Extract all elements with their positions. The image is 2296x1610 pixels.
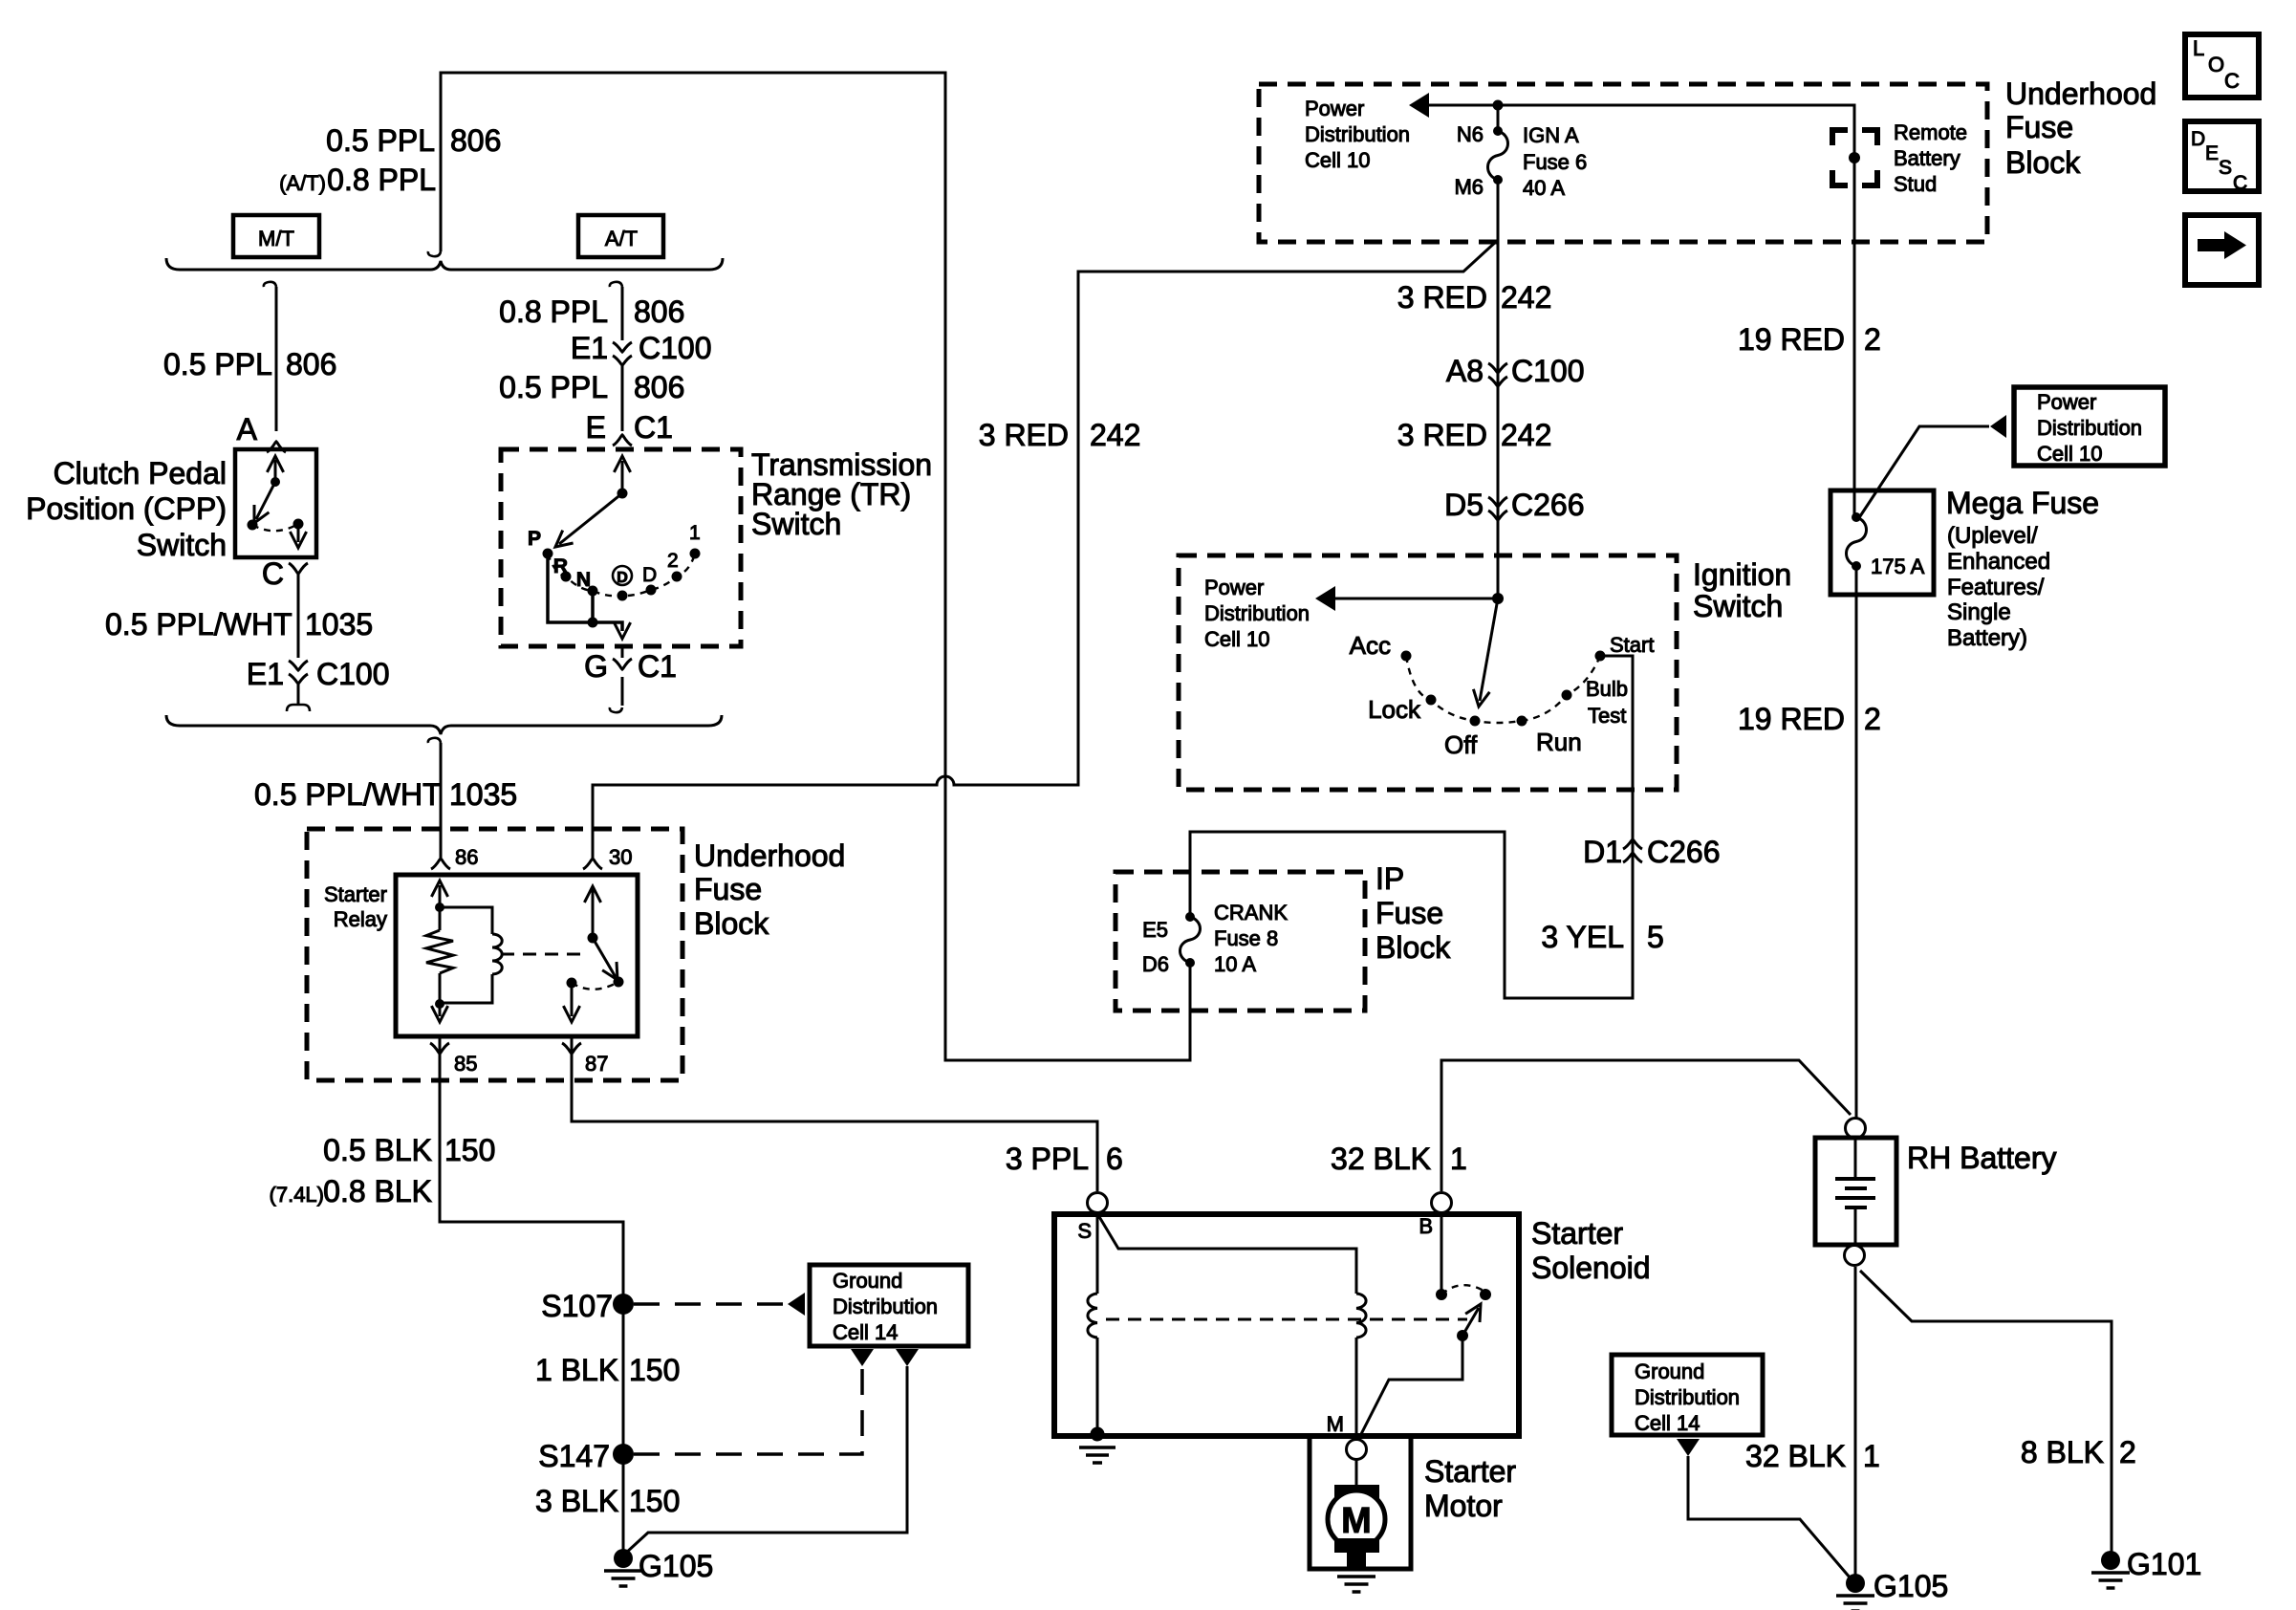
svg-text:10 A: 10 A [1214, 952, 1256, 976]
svg-text:Ground: Ground [833, 1269, 902, 1293]
svg-text:E: E [586, 410, 606, 445]
svg-text:M/T: M/T [258, 227, 294, 250]
svg-text:0.8 PPL: 0.8 PPL [327, 163, 436, 197]
svg-text:Fuse: Fuse [2005, 110, 2073, 144]
svg-text:Solenoid: Solenoid [1531, 1251, 1651, 1285]
svg-text:IP: IP [1375, 861, 1404, 896]
svg-text:Battery: Battery [1894, 146, 1960, 170]
svg-text:242: 242 [1090, 418, 1140, 452]
svg-text:Block: Block [2005, 145, 2081, 180]
svg-text:E5: E5 [1142, 918, 1168, 942]
svg-text:M: M [1341, 1501, 1372, 1541]
svg-text:D: D [617, 570, 628, 586]
svg-text:40 A: 40 A [1523, 176, 1565, 200]
svg-text:0.5 PPL: 0.5 PPL [499, 370, 608, 404]
svg-text:0.5 PPL: 0.5 PPL [163, 347, 272, 381]
svg-text:Cell 14: Cell 14 [833, 1320, 898, 1344]
svg-text:Switch: Switch [137, 528, 227, 562]
svg-text:R: R [553, 555, 568, 577]
svg-text:CRANK: CRANK [1214, 901, 1288, 925]
svg-text:C1: C1 [634, 410, 673, 445]
svg-text:Run: Run [1536, 728, 1582, 756]
svg-text:Distribution: Distribution [1305, 122, 1410, 146]
svg-text:L: L [2193, 36, 2204, 60]
svg-text:E1: E1 [571, 331, 608, 365]
svg-text:2: 2 [2119, 1435, 2136, 1469]
svg-text:Lock: Lock [1368, 695, 1421, 724]
svg-text:(7.4L): (7.4L) [270, 1183, 324, 1207]
svg-text:1: 1 [1863, 1439, 1880, 1473]
svg-text:Cell 10: Cell 10 [1204, 627, 1269, 651]
svg-text:G101: G101 [2127, 1547, 2201, 1581]
svg-text:5: 5 [1647, 920, 1664, 954]
svg-text:Mega Fuse: Mega Fuse [1946, 486, 2099, 520]
svg-text:242: 242 [1501, 280, 1551, 315]
svg-text:806: 806 [634, 370, 684, 404]
svg-text:150: 150 [629, 1484, 680, 1518]
svg-text:Position (CPP): Position (CPP) [26, 491, 227, 526]
svg-text:2: 2 [1864, 322, 1881, 357]
svg-text:D1: D1 [1583, 835, 1622, 869]
svg-text:0.8 BLK: 0.8 BLK [323, 1174, 432, 1208]
svg-text:Cell 14: Cell 14 [1635, 1411, 1700, 1435]
svg-text:C: C [2224, 69, 2240, 93]
svg-text:1 BLK: 1 BLK [535, 1353, 618, 1387]
svg-text:Enhanced: Enhanced [1947, 549, 2050, 575]
svg-text:G: G [584, 649, 608, 684]
svg-text:Single: Single [1947, 599, 2011, 625]
svg-text:G105: G105 [639, 1549, 713, 1583]
svg-text:C1: C1 [638, 649, 677, 684]
svg-text:3 RED: 3 RED [1397, 280, 1487, 315]
svg-text:A/T: A/T [605, 227, 638, 250]
svg-text:P: P [528, 528, 541, 550]
svg-text:Starter: Starter [1424, 1454, 1516, 1489]
svg-text:Block: Block [694, 906, 769, 941]
svg-text:1035: 1035 [449, 777, 517, 812]
svg-text:Underhood: Underhood [694, 838, 845, 873]
svg-text:Acc: Acc [1350, 631, 1391, 660]
svg-text:Ignition: Ignition [1693, 557, 1791, 592]
svg-text:S: S [2219, 157, 2232, 179]
svg-text:2: 2 [1864, 702, 1881, 736]
svg-text:A: A [237, 412, 258, 446]
svg-text:C100: C100 [639, 331, 712, 365]
svg-text:Power: Power [1204, 576, 1264, 599]
svg-text:Starter: Starter [1531, 1216, 1623, 1251]
svg-text:3 RED: 3 RED [1397, 418, 1487, 452]
svg-text:Start: Start [1610, 633, 1654, 657]
svg-text:Distribution: Distribution [2037, 416, 2142, 440]
svg-text:32 BLK: 32 BLK [1331, 1142, 1431, 1176]
svg-text:Cell 10: Cell 10 [1305, 148, 1370, 172]
svg-text:1: 1 [1450, 1142, 1467, 1176]
svg-text:C: C [262, 556, 284, 591]
svg-text:Distribution: Distribution [1204, 601, 1310, 625]
svg-text:N6: N6 [1457, 122, 1484, 146]
svg-text:2: 2 [667, 550, 679, 572]
svg-text:Clutch Pedal: Clutch Pedal [54, 456, 227, 490]
svg-text:Cell 10: Cell 10 [2037, 442, 2102, 466]
svg-text:D5: D5 [1444, 488, 1484, 522]
svg-text:1: 1 [689, 522, 701, 544]
svg-text:175 A: 175 A [1871, 555, 1925, 578]
svg-text:Fuse: Fuse [694, 872, 762, 906]
svg-text:3 RED: 3 RED [979, 418, 1069, 452]
svg-text:86: 86 [455, 845, 478, 869]
svg-text:Switch: Switch [751, 507, 841, 541]
svg-text:0.5 PPL/WHT: 0.5 PPL/WHT [254, 777, 442, 812]
svg-text:1035: 1035 [305, 607, 373, 642]
svg-text:Ground: Ground [1635, 1360, 1704, 1383]
svg-text:A8: A8 [1446, 354, 1484, 388]
svg-text:3 YEL: 3 YEL [1541, 920, 1624, 954]
svg-text:0.5 PPL: 0.5 PPL [326, 123, 435, 158]
svg-text:150: 150 [629, 1353, 680, 1387]
svg-text:0.5 PPL/WHT: 0.5 PPL/WHT [105, 607, 292, 642]
svg-text:D6: D6 [1142, 952, 1169, 976]
svg-text:150: 150 [444, 1133, 495, 1167]
svg-text:0.5 BLK: 0.5 BLK [323, 1133, 432, 1167]
svg-text:Remote: Remote [1894, 120, 1967, 144]
svg-text:M: M [1327, 1412, 1344, 1436]
svg-text:E: E [2205, 142, 2219, 164]
svg-text:G105: G105 [1874, 1569, 1948, 1603]
svg-text:RH Battery: RH Battery [1907, 1141, 2056, 1175]
svg-text:806: 806 [450, 123, 501, 158]
svg-text:C266: C266 [1511, 488, 1585, 522]
svg-text:(Uplevel/: (Uplevel/ [1947, 523, 2038, 549]
svg-text:C100: C100 [1511, 354, 1585, 388]
svg-text:Starter: Starter [324, 882, 387, 906]
svg-text:87: 87 [585, 1052, 608, 1076]
svg-text:S147: S147 [538, 1439, 610, 1473]
svg-text:6: 6 [1106, 1142, 1123, 1176]
svg-text:3 BLK: 3 BLK [535, 1484, 618, 1518]
svg-text:806: 806 [634, 294, 684, 329]
svg-text:Stud: Stud [1894, 172, 1937, 196]
svg-text:Relay: Relay [334, 907, 387, 931]
svg-text:30: 30 [609, 845, 632, 869]
svg-text:IGN A: IGN A [1523, 123, 1579, 147]
svg-text:Fuse 6: Fuse 6 [1523, 150, 1587, 174]
svg-text:D: D [2191, 128, 2205, 150]
svg-text:Battery): Battery) [1947, 625, 2027, 651]
svg-text:Distribution: Distribution [833, 1295, 938, 1318]
svg-text:85: 85 [454, 1052, 477, 1076]
svg-text:S: S [1077, 1219, 1092, 1243]
svg-text:D: D [642, 564, 657, 586]
svg-text:Underhood: Underhood [2005, 76, 2156, 111]
svg-text:Block: Block [1375, 930, 1451, 965]
svg-text:C100: C100 [316, 657, 390, 691]
svg-text:242: 242 [1501, 418, 1551, 452]
svg-text:C: C [2233, 172, 2247, 194]
svg-text:O: O [2208, 53, 2224, 76]
svg-text:B: B [1419, 1214, 1433, 1238]
svg-text:19 RED: 19 RED [1738, 322, 1845, 357]
svg-text:Features/: Features/ [1947, 575, 2045, 600]
svg-text:3 PPL: 3 PPL [1006, 1142, 1089, 1176]
svg-text:Motor: Motor [1424, 1489, 1503, 1523]
svg-text:E1: E1 [247, 657, 284, 691]
svg-text:32 BLK: 32 BLK [1745, 1439, 1846, 1473]
svg-text:Off: Off [1444, 730, 1478, 759]
svg-text:C266: C266 [1647, 835, 1721, 869]
svg-text:Power: Power [1305, 97, 1364, 120]
svg-text:8 BLK: 8 BLK [2021, 1435, 2104, 1469]
svg-text:Switch: Switch [1693, 589, 1783, 623]
svg-text:M6: M6 [1454, 175, 1484, 199]
svg-text:N: N [576, 569, 591, 591]
svg-text:806: 806 [286, 347, 336, 381]
svg-text:0.8 PPL: 0.8 PPL [499, 294, 608, 329]
svg-text:Fuse 8: Fuse 8 [1214, 926, 1278, 950]
svg-text:19 RED: 19 RED [1738, 702, 1845, 736]
svg-text:Test: Test [1588, 704, 1626, 728]
svg-text:Bulb: Bulb [1586, 677, 1628, 701]
svg-text:Fuse: Fuse [1375, 896, 1443, 930]
svg-text:(A/T): (A/T) [279, 171, 326, 195]
svg-text:S107: S107 [541, 1289, 613, 1323]
svg-text:Power: Power [2037, 390, 2096, 414]
svg-text:Distribution: Distribution [1635, 1385, 1740, 1409]
